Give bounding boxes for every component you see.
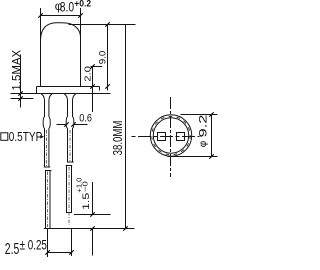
- svg-text:9.0: 9.0: [97, 51, 107, 65]
- svg-text:9.2: 9.2: [198, 115, 210, 138]
- svg-text:0.6: 0.6: [79, 112, 92, 124]
- svg-text:0.5TYP: 0.5TYP: [9, 130, 43, 144]
- svg-text:+0.2: +0.2: [74, 0, 91, 8]
- svg-text:−0: −0: [81, 181, 90, 192]
- svg-text:1.5: 1.5: [81, 193, 92, 210]
- svg-text:2.0: 2.0: [82, 66, 92, 82]
- svg-text:1.5MAX: 1.5MAX: [11, 49, 23, 90]
- svg-text:φ: φ: [198, 140, 209, 147]
- svg-text:8.0: 8.0: [60, 0, 74, 14]
- svg-text:38.0MM: 38.0MM: [110, 121, 125, 156]
- svg-text:2.5: 2.5: [5, 241, 20, 258]
- svg-text:± 0.25: ± 0.25: [20, 238, 47, 253]
